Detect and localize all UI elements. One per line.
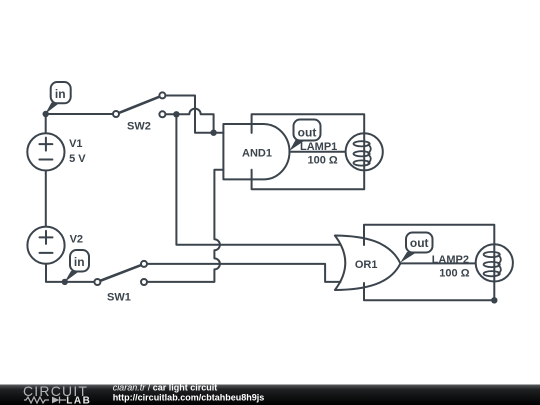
svg-text:in: in [55, 87, 66, 101]
svg-text:100 Ω: 100 Ω [308, 154, 338, 166]
svg-text:100 Ω: 100 Ω [439, 267, 469, 279]
svg-text:http://circuitlab.com/cbtahbeu: http://circuitlab.com/cbtahbeu8h9js [113, 392, 265, 402]
svg-text:SW2: SW2 [127, 121, 151, 133]
svg-text:LAMP2: LAMP2 [432, 254, 469, 266]
svg-text:SW1: SW1 [107, 292, 131, 304]
svg-text:out: out [298, 125, 317, 139]
svg-text:LAB: LAB [66, 396, 91, 405]
svg-text:in: in [74, 255, 85, 269]
svg-text:V2: V2 [70, 233, 83, 245]
svg-text:out: out [410, 236, 429, 250]
svg-text:LAMP1: LAMP1 [300, 141, 337, 153]
svg-text:OR1: OR1 [355, 259, 378, 271]
svg-text:ciaran.tr / car light circuit: ciaran.tr / car light circuit [113, 383, 218, 393]
svg-text:AND1: AND1 [242, 147, 272, 159]
svg-text:V1: V1 [69, 138, 82, 150]
svg-text:5 V: 5 V [69, 153, 86, 165]
